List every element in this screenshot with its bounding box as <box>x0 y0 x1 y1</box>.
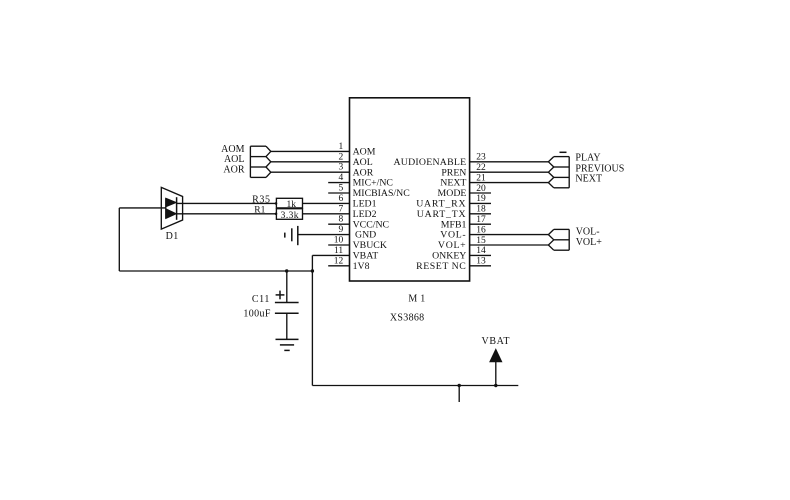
pin number 16 <box>476 225 486 235</box>
svg-text:1V8: 1V8 <box>353 261 370 272</box>
designator D1 <box>166 231 179 242</box>
svg-text:GND: GND <box>355 230 376 241</box>
pin number 5 <box>338 184 343 194</box>
wire stub down from bottom rail <box>458 386 460 403</box>
port connector VOL-/VOL+ <box>548 229 569 250</box>
svg-text:14: 14 <box>476 246 486 256</box>
designator C11 <box>252 294 270 305</box>
svg-text:NEXT: NEXT <box>440 178 466 189</box>
pin 8 stub (VCC/NC) <box>328 223 349 225</box>
value 1k <box>287 200 297 210</box>
pin name MFB1 <box>441 219 467 230</box>
net label AOR <box>223 165 244 176</box>
designator M1 <box>408 294 428 305</box>
pin name RESET NC <box>416 261 466 272</box>
svg-text:R1: R1 <box>254 205 265 215</box>
active-low dash above PLAY <box>560 151 567 153</box>
svg-text:AOR: AOR <box>223 165 244 176</box>
svg-text:1: 1 <box>338 142 343 152</box>
svg-text:UART_TX: UART_TX <box>417 209 467 220</box>
svg-text:6: 6 <box>338 194 343 204</box>
pin number 10 <box>334 236 344 246</box>
pin number 8 <box>338 215 343 225</box>
wire AOM pin1 <box>271 150 350 152</box>
wire bottom rail <box>312 385 518 387</box>
svg-text:LED2: LED2 <box>353 209 377 220</box>
pin name AUDIOENABLE <box>393 157 466 168</box>
svg-text:1k: 1k <box>287 200 297 210</box>
svg-text:D1: D1 <box>166 231 179 242</box>
pin name GND <box>355 230 376 241</box>
svg-text:PLAY: PLAY <box>575 153 600 164</box>
junction pin11 net corner <box>311 269 314 272</box>
pin 13 stub (RESET NC) <box>470 265 491 267</box>
net label VOL+ <box>576 237 603 248</box>
net label NEXT <box>575 174 602 185</box>
junction at R35 input <box>275 202 278 205</box>
wire D1 upper to R35 <box>177 202 277 204</box>
wire pin9 GND <box>298 234 350 236</box>
wire bottom horizontal to C11 node <box>119 270 312 272</box>
svg-text:13: 13 <box>476 257 486 267</box>
pin number 21 <box>476 173 486 183</box>
svg-text:11: 11 <box>334 246 343 256</box>
svg-text:NEXT: NEXT <box>575 174 602 185</box>
capacitor C11 top lead <box>286 271 288 303</box>
svg-text:AOL: AOL <box>224 154 245 165</box>
pin name MIC+/NC <box>353 178 393 189</box>
svg-text:XS3868: XS3868 <box>390 313 425 324</box>
wire R1 to pin7 <box>303 213 350 215</box>
pin name UART_TX <box>417 209 467 220</box>
LED D1 package outline <box>161 187 182 229</box>
svg-text:VOL+: VOL+ <box>576 237 603 248</box>
svg-text:19: 19 <box>476 194 486 204</box>
pin number 18 <box>476 205 486 215</box>
svg-text:RESET NC: RESET NC <box>416 261 466 272</box>
capacitor C11 bottom lead <box>286 313 288 339</box>
pin name LED2 <box>353 209 377 220</box>
pin number 9 <box>338 225 343 235</box>
wire pin23 to port <box>470 161 549 163</box>
pin number 4 <box>338 173 343 183</box>
pin name 1V8 <box>353 261 370 272</box>
wire pin11 vertical down <box>311 255 313 385</box>
svg-text:MICBIAS/NC: MICBIAS/NC <box>353 188 410 199</box>
net label AOL <box>224 154 245 165</box>
svg-text:AOM: AOM <box>353 147 376 158</box>
wire pin22 to port <box>470 171 549 173</box>
net label VBAT <box>482 336 511 347</box>
svg-text:5: 5 <box>338 184 343 194</box>
ground (sideways) at pin9 <box>285 226 298 245</box>
svg-text:LED1: LED1 <box>353 199 377 210</box>
value 100uF <box>243 309 271 320</box>
pin name UART_RX <box>416 199 466 210</box>
svg-text:C11: C11 <box>252 294 270 305</box>
pin name AOM <box>353 147 376 158</box>
wire pin16 to port <box>470 234 549 236</box>
pin name PREN <box>441 167 466 178</box>
svg-text:PREN: PREN <box>441 167 466 178</box>
svg-text:VBAT: VBAT <box>482 336 511 347</box>
wire AOL pin2 <box>271 161 350 163</box>
power VBAT stem <box>495 361 497 386</box>
svg-text:R35: R35 <box>252 195 270 206</box>
pin 14 stub (ONKEY) <box>470 254 491 256</box>
svg-text:100uF: 100uF <box>243 309 271 320</box>
port connector PLAY/PREVIOUS/NEXT <box>548 157 569 188</box>
pin number 3 <box>338 163 343 173</box>
wire D1 anode horizontal <box>119 207 166 209</box>
pin number 11 <box>334 246 343 256</box>
pin name MODE <box>438 188 467 199</box>
net label VOL- <box>576 226 600 237</box>
pin number 1 <box>338 142 343 152</box>
pin name AOR <box>353 167 374 178</box>
wire pin21 to port <box>470 182 549 184</box>
pin name VOL- <box>440 230 466 241</box>
svg-text:VBUCK: VBUCK <box>353 240 387 251</box>
svg-text:MIC+/NC: MIC+/NC <box>353 178 393 189</box>
wire pin11 VBAT horizontal <box>312 254 349 256</box>
pin number 12 <box>334 256 344 266</box>
pin number 17 <box>476 215 486 225</box>
LED D1 anode bar <box>165 198 167 218</box>
wire D1 lower to R1 <box>177 213 277 215</box>
pin 4 stub (MIC+/NC) <box>328 182 349 184</box>
pin 19 stub (UART_RX) <box>470 202 491 204</box>
svg-text:VOL+: VOL+ <box>438 240 466 251</box>
pin number 22 <box>476 163 486 173</box>
value XS3868 <box>390 313 425 324</box>
junction bottom rail stub <box>458 384 461 387</box>
svg-text:AOR: AOR <box>353 167 374 178</box>
pin number 7 <box>338 204 343 214</box>
LED D1 lower diode triangle <box>166 209 176 219</box>
wire left vertical from D1 <box>118 208 120 271</box>
svg-text:VOL-: VOL- <box>440 230 466 241</box>
wire pin15 to port <box>470 244 549 246</box>
resistor R1 body <box>276 209 302 220</box>
pin name NEXT <box>440 178 466 189</box>
pin 17 stub (MFB1) <box>470 223 491 225</box>
svg-text:3: 3 <box>338 163 343 173</box>
svg-text:8: 8 <box>338 215 343 225</box>
wire AOR pin3 <box>271 171 350 173</box>
wire R35 to pin6 <box>303 202 350 204</box>
pin name VOL+ <box>438 240 466 251</box>
junction at R1 input <box>275 213 278 216</box>
svg-text:VBAT: VBAT <box>353 251 379 262</box>
pin 18 stub (UART_TX) <box>470 213 491 215</box>
junction C11 top node <box>285 269 288 272</box>
ground below C11 <box>276 339 299 350</box>
capacitor C11 plus sign <box>276 291 285 300</box>
net label PREVIOUS <box>575 163 624 174</box>
pin number 23 <box>476 153 486 163</box>
pin number 15 <box>476 236 486 246</box>
LED D1 cathode bar <box>176 197 178 220</box>
svg-text:16: 16 <box>476 225 486 235</box>
svg-text:4: 4 <box>338 173 343 183</box>
pin number 2 <box>338 152 343 162</box>
svg-text:MFB1: MFB1 <box>441 219 467 230</box>
svg-text:10: 10 <box>334 236 344 246</box>
svg-text:23: 23 <box>476 153 486 163</box>
svg-text:ONKEY: ONKEY <box>432 251 466 262</box>
svg-text:15: 15 <box>476 236 486 246</box>
pin number 19 <box>476 194 486 204</box>
pin name ONKEY <box>432 251 466 262</box>
svg-text:3.3k: 3.3k <box>281 211 299 221</box>
svg-text:MODE: MODE <box>438 188 467 199</box>
svg-text:AUDIOENABLE: AUDIOENABLE <box>393 157 466 168</box>
designator R1 <box>254 205 265 215</box>
net label AOM <box>221 144 244 155</box>
pin 12 stub (1V8) <box>328 265 349 267</box>
svg-text:AOM: AOM <box>221 144 244 155</box>
pin name VBAT <box>353 251 379 262</box>
pin 10 stub (VBUCK) <box>328 244 349 246</box>
pin name VCC/NC <box>353 219 389 230</box>
svg-text:AOL: AOL <box>353 157 373 168</box>
LED D1 upper diode triangle <box>166 198 176 207</box>
svg-text:12: 12 <box>334 256 344 266</box>
power VBAT arrowhead <box>490 349 502 362</box>
resistor R35 body <box>276 198 302 208</box>
pin number 6 <box>338 194 343 204</box>
svg-text:17: 17 <box>476 215 486 225</box>
net label PLAY <box>575 153 600 164</box>
svg-text:22: 22 <box>476 163 486 173</box>
svg-text:9: 9 <box>338 225 343 235</box>
pin 5 stub (MICBIAS/NC) <box>328 192 349 194</box>
value 3.3k <box>281 211 299 221</box>
designator R35 <box>252 195 270 206</box>
pin number 20 <box>476 184 486 194</box>
pin name LED1 <box>353 199 377 210</box>
pin number 14 <box>476 246 486 256</box>
pin 20 stub (MODE) <box>470 192 491 194</box>
pin name AOL <box>353 157 373 168</box>
svg-text:18: 18 <box>476 205 486 215</box>
IC M1 XS3868 body <box>350 98 470 281</box>
capacitor C11 plates <box>275 303 299 314</box>
svg-text:7: 7 <box>338 204 343 214</box>
svg-text:20: 20 <box>476 184 486 194</box>
svg-text:VOL-: VOL- <box>576 226 600 237</box>
junction VBAT arrow base <box>494 384 497 387</box>
port connector AOM/AOL/AOR <box>250 146 270 177</box>
svg-text:2: 2 <box>338 152 343 162</box>
pin number 13 <box>476 257 486 267</box>
svg-text:M1: M1 <box>408 294 428 305</box>
svg-text:VCC/NC: VCC/NC <box>353 219 389 230</box>
svg-text:21: 21 <box>476 173 486 183</box>
pin name VBUCK <box>353 240 387 251</box>
svg-text:UART_RX: UART_RX <box>416 199 466 210</box>
pin name MICBIAS/NC <box>353 188 410 199</box>
